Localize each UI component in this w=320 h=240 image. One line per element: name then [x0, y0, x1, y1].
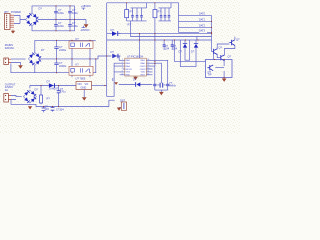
svg-text:K?: K?	[76, 37, 80, 41]
svg-text:100u: 100u	[58, 24, 64, 28]
svg-text:U? 7805: U? 7805	[76, 77, 86, 81]
svg-text:2: 2	[122, 62, 123, 64]
svg-text:OSC1: OSC1	[140, 66, 147, 68]
svg-text:VDD: VDD	[141, 72, 146, 74]
svg-text:D?: D?	[111, 50, 115, 54]
svg-text:Q?: Q?	[228, 55, 232, 59]
svg-text:100u: 100u	[72, 11, 78, 15]
svg-text:D?: D?	[179, 50, 183, 54]
svg-text:OSC2: OSC2	[140, 69, 147, 71]
svg-text:D?: D?	[111, 28, 115, 32]
svg-text:100u: 100u	[72, 24, 78, 28]
svg-text:POWER: POWER	[11, 10, 21, 14]
svg-text:1N4007: 1N4007	[49, 87, 59, 91]
svg-text:D?: D?	[41, 48, 45, 52]
svg-text:104: 104	[173, 47, 178, 51]
svg-text:Q?: Q?	[236, 38, 240, 42]
svg-text:4MHz: 4MHz	[169, 83, 176, 87]
svg-text:D?: D?	[191, 50, 195, 54]
svg-text:DAT3: DAT3	[199, 30, 206, 33]
svg-text:1A: 1A	[5, 88, 8, 92]
svg-text:GND: GND	[81, 85, 87, 89]
svg-text:13: 13	[147, 73, 149, 75]
svg-text:15: 15	[147, 68, 149, 70]
svg-text:R?: R?	[128, 22, 132, 26]
svg-text:TIP: TIP	[208, 73, 212, 77]
svg-text:D?: D?	[47, 79, 51, 83]
svg-text:R?: R?	[47, 97, 51, 101]
svg-text:18: 18	[147, 59, 149, 61]
svg-text:2200u: 2200u	[59, 64, 67, 68]
svg-text:D?: D?	[35, 88, 39, 92]
svg-text:MCLR: MCLR	[126, 69, 133, 71]
svg-text:R?: R?	[158, 9, 162, 13]
svg-text:16: 16	[147, 65, 149, 67]
svg-text:+18VDC: +18VDC	[81, 4, 91, 8]
svg-text:5: 5	[122, 71, 123, 73]
svg-text:Q?: Q?	[219, 46, 223, 50]
svg-text:K?: K?	[76, 63, 80, 67]
svg-text:DS?: DS?	[120, 99, 126, 103]
svg-text:DAT1: DAT1	[199, 19, 206, 22]
svg-text:1: 1	[122, 59, 123, 61]
svg-text:DAT2: DAT2	[199, 25, 206, 28]
svg-text:D?: D?	[133, 78, 137, 82]
svg-text:R?: R?	[130, 9, 134, 13]
svg-text:100u: 100u	[58, 11, 64, 15]
svg-text:4: 4	[122, 68, 123, 70]
svg-text:-18VDC: -18VDC	[80, 28, 90, 32]
svg-text:470u: 470u	[60, 89, 66, 93]
svg-text:220VAC: 220VAC	[5, 46, 15, 50]
svg-text:3: 3	[122, 65, 123, 67]
svg-text:104: 104	[165, 47, 170, 51]
svg-text:6: 6	[122, 73, 123, 75]
svg-text:JP?: JP?	[4, 10, 9, 14]
svg-text:C?104: C?104	[56, 108, 64, 112]
svg-text:2200u: 2200u	[59, 48, 67, 52]
svg-text:17: 17	[147, 62, 149, 64]
svg-text:U? PIC16C54: U? PIC16C54	[127, 55, 144, 59]
svg-text:104: 104	[44, 107, 49, 111]
svg-text:D?: D?	[39, 6, 43, 10]
svg-text:DAT0: DAT0	[199, 13, 206, 16]
svg-text:14: 14	[147, 71, 149, 73]
svg-text:VSS: VSS	[126, 72, 131, 74]
